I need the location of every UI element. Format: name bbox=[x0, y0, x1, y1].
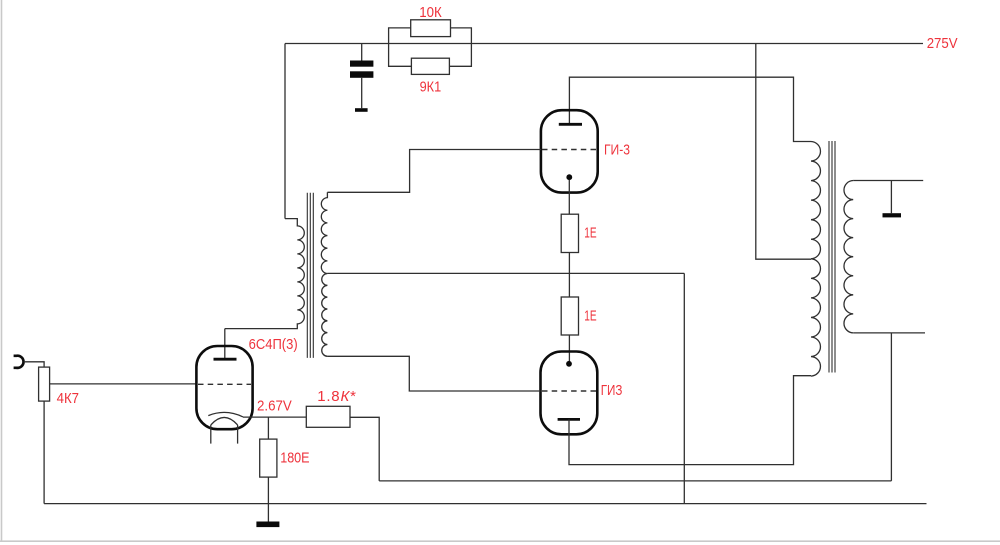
tube U2 anode plate bbox=[559, 123, 582, 126]
tube U1 cathode arc bbox=[208, 412, 243, 417]
ground (capacitor) bbox=[355, 108, 368, 112]
output transformer secondary winding bbox=[844, 181, 853, 333]
wire: OT secondary top lead bbox=[853, 180, 923, 182]
wire: parallel bracket right bbox=[449, 28, 471, 66]
tube U2 envelope (GI-3 upper) bbox=[541, 110, 598, 192]
wire: lower tube grid from interstage secondary bottom bbox=[327, 356, 540, 391]
wire: lower tube anode to OT primary bottom bbox=[569, 376, 811, 465]
resistor 4K7 bbox=[39, 367, 50, 401]
wire: 180E bottom through rail to ground bbox=[267, 477, 269, 521]
wire: 275V supply rail bbox=[285, 43, 923, 45]
wire: 4K7 bottom to bottom rail bbox=[43, 401, 45, 504]
resistor 1.8K bbox=[306, 406, 350, 427]
wire: cathode junction down to 180E bbox=[267, 417, 269, 439]
capacitor C1 bbox=[350, 61, 373, 67]
output transformer primary winding bbox=[811, 142, 820, 377]
tube U1 anode plate bbox=[214, 358, 237, 361]
capacitor C1 top lead bbox=[361, 44, 363, 61]
svg-text:180Е: 180Е bbox=[280, 449, 309, 466]
svg-text:1Е: 1Е bbox=[584, 225, 596, 242]
wire: 4K7 tap to left tube grid bbox=[50, 383, 197, 385]
wire: lower 1E to lower tube cathode bbox=[568, 335, 570, 361]
svg-text:4К7: 4К7 bbox=[57, 390, 79, 407]
ground (OT secondary) bbox=[883, 213, 902, 217]
svg-text:275V: 275V bbox=[927, 35, 958, 52]
wire: rail drop to interstage primary top bbox=[284, 44, 286, 219]
tube U2 cathode lead bbox=[568, 180, 570, 215]
wire: OT secondary tap down to feedback run bbox=[890, 333, 892, 481]
svg-text:2.67V: 2.67V bbox=[257, 398, 292, 415]
page border left bbox=[1, 0, 3, 541]
tube U3 envelope (GIZ lower) bbox=[541, 352, 598, 435]
ground (180E) bbox=[256, 522, 279, 528]
tube U1 grid (dashed) bbox=[198, 383, 251, 385]
interstage transformer secondary winding bbox=[321, 192, 327, 356]
wire: jack to 4K7 top bbox=[24, 362, 44, 367]
wire: feedback run to OT secondary tap bbox=[379, 480, 891, 482]
wire: between the two 1E resistors bbox=[568, 253, 570, 298]
wire: interstage center tap to x684 drop bbox=[327, 272, 684, 274]
svg-text:10К: 10К bbox=[419, 4, 442, 21]
tube U1 heater leg right bbox=[237, 425, 239, 444]
tube U1 heater arc bbox=[211, 417, 238, 424]
wire: parallel bracket left bbox=[389, 28, 412, 66]
svg-text:ГИ-3: ГИ-3 bbox=[604, 141, 630, 158]
interstage transformer primary winding bbox=[225, 219, 304, 329]
tube U1 heater leg left bbox=[210, 425, 212, 444]
wire: bottom rail bbox=[44, 503, 926, 505]
svg-text:1Е: 1Е bbox=[584, 308, 596, 325]
output transformer core bbox=[829, 141, 835, 373]
svg-text:6С4П(3): 6С4П(3) bbox=[249, 336, 298, 353]
resistor 1E lower bbox=[561, 297, 578, 335]
tube U1 envelope (6S4P left) bbox=[196, 346, 252, 429]
tube U3 anode plate bbox=[558, 418, 580, 421]
input jack bbox=[14, 356, 24, 368]
wire: upper tube grid from interstage secondary top bbox=[327, 150, 541, 193]
tube U2 grid (dashed) bbox=[542, 149, 597, 151]
interstage transformer core bbox=[307, 193, 313, 358]
capacitor C1 bottom lead bbox=[361, 78, 363, 108]
wire: rail drop to OT primary center tap bbox=[756, 44, 811, 260]
svg-text:ГИЗ: ГИЗ bbox=[601, 382, 623, 399]
wire: OT secondary bottom lead bbox=[853, 332, 925, 334]
tube U3 cathode dot bbox=[566, 361, 572, 367]
tube U3 grid (dashed) bbox=[542, 390, 597, 392]
resistor 9K1 bbox=[411, 58, 449, 74]
page border bottom bbox=[0, 540, 1000, 542]
wire: upper tube anode to output transformer bbox=[569, 77, 811, 141]
wire: OT secondary ground stub bbox=[890, 181, 892, 214]
resistor 1E upper bbox=[561, 214, 578, 252]
tube U2 cathode dot bbox=[566, 174, 572, 180]
wire: interstage primary bottom to left tube anode bbox=[224, 329, 226, 360]
wire: drop x684 to bottom rail bbox=[683, 273, 685, 503]
resistor 180E bbox=[260, 439, 277, 477]
wire: cathode to 1.8K resistor bbox=[243, 416, 306, 418]
svg-text:1.8К*: 1.8К* bbox=[317, 388, 357, 405]
wire: 1.8K right to feedback drop bbox=[350, 417, 379, 481]
svg-text:9К1: 9К1 bbox=[420, 79, 442, 96]
resistor 10K bbox=[411, 20, 451, 37]
